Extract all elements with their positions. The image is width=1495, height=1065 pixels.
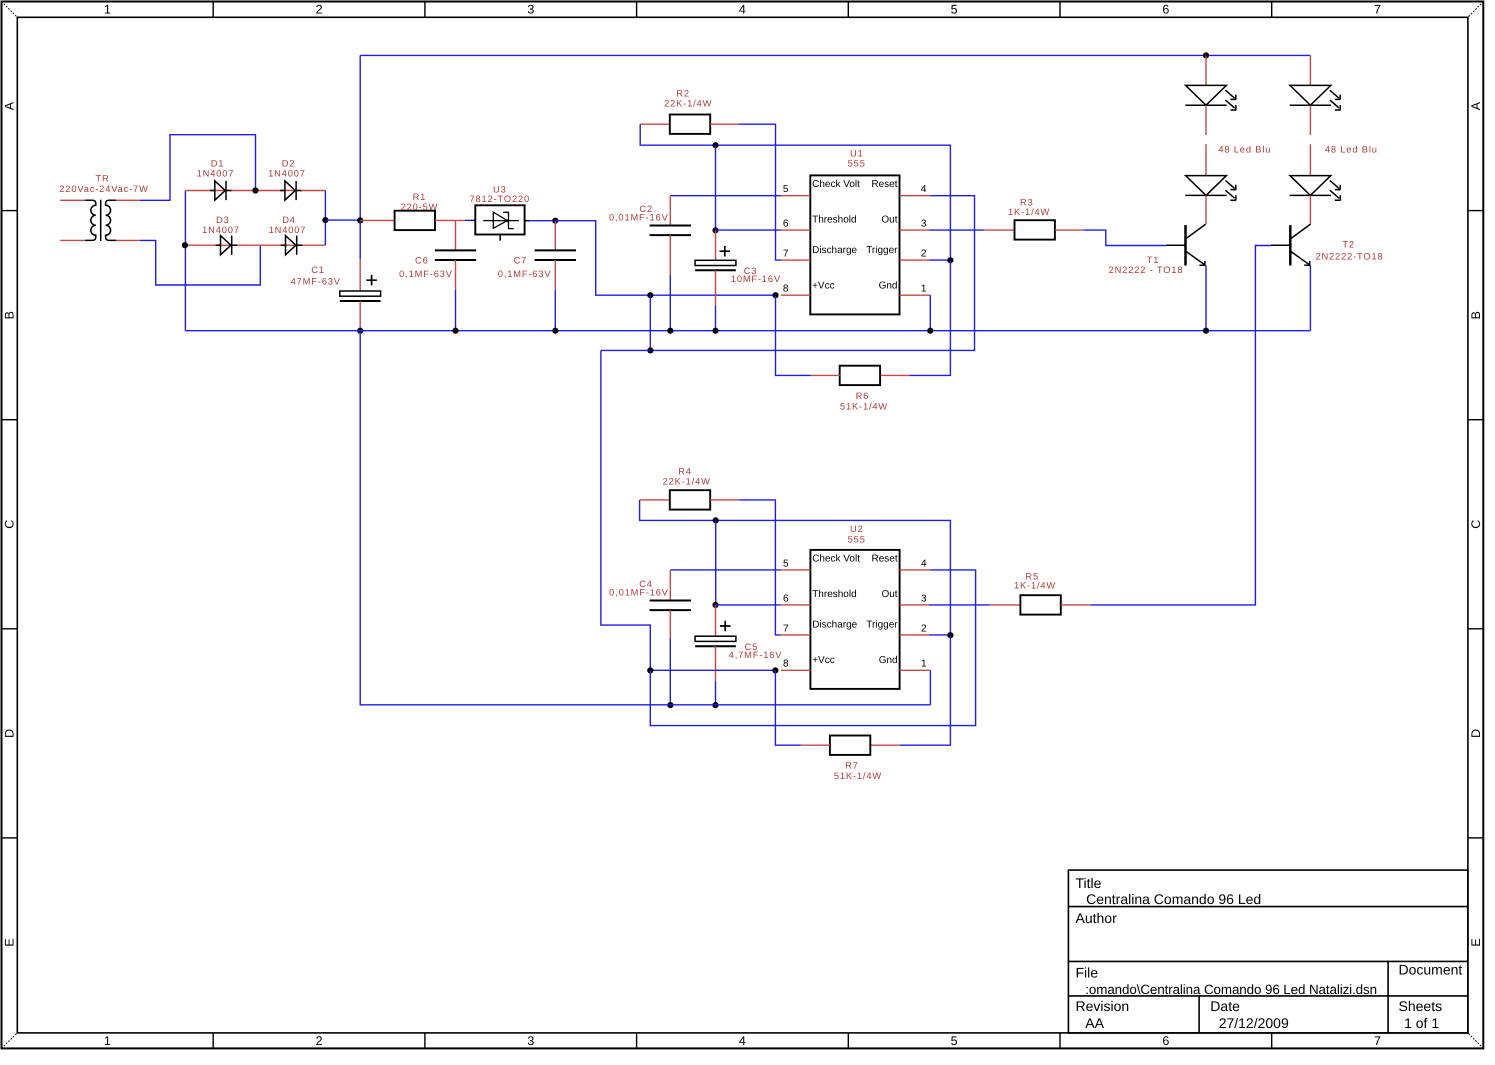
resistor R1 body [395,211,435,230]
junction +24V node [357,217,363,223]
svg-text:6: 6 [1162,3,1169,17]
svg-text:3: 3 [921,593,927,604]
wire U1 pin 5 line from C2 [670,195,781,197]
wire +24V vertical to top rail [359,55,361,220]
svg-text:220-5W: 220-5W [401,202,439,212]
junction C2 to ground rail [667,328,673,334]
wire U1 trigger down to R6 right [909,260,950,375]
svg-text:Discharge: Discharge [812,245,857,256]
wire C5 column vertical [715,520,717,605]
wire C4 upper lead [669,570,671,601]
svg-text:48 Led Blu: 48 Led Blu [1218,145,1271,155]
wire bridge output to +24V node [325,219,360,221]
svg-text:Threshold: Threshold [812,589,856,600]
svg-text:TR: TR [95,174,109,184]
svg-text:51K-1/4W: 51K-1/4W [840,402,888,412]
junction U1 reset link node [647,347,653,353]
svg-text:R1: R1 [413,192,427,202]
svg-text:1N4007: 1N4007 [197,168,235,178]
svg-text:C: C [1469,520,1483,529]
svg-text:6: 6 [783,593,789,604]
junction U1 pin 6 node [712,227,718,233]
transformer TR symbol [85,200,116,241]
capacitor C4 plates [650,601,691,611]
wire R2 right to U1 pin 7 [739,124,781,260]
wire U2 pin 2 to junction [930,634,951,636]
svg-text:T2: T2 [1342,240,1355,250]
wire T2 emitter to ground rail end [1309,266,1311,331]
wire R5 right lead [1061,604,1091,606]
wire LED string 1 top lead [1205,55,1207,85]
junction U2 Vcc row at x650 [647,667,653,673]
wire T1 emitter to ground rail [1205,266,1207,331]
wire U2 trigger down to R7 right [900,635,951,745]
svg-text:4: 4 [921,558,927,569]
polarized capacitor C5 plates and + mark [695,621,736,647]
transistor T2 symbol (NPN) [1271,224,1311,266]
wire U2 Vcc row [650,669,775,671]
wire U1 pin 1 to ground rail [929,295,931,331]
svg-text:B: B [3,311,17,319]
svg-text:Out: Out [881,589,897,600]
capacitor C6 plates [435,250,476,260]
svg-text:6: 6 [783,219,789,230]
wire LED string 1 inter-LED lower segment [1205,144,1207,175]
svg-text:4: 4 [921,184,927,195]
wire U2 ground line from rail [360,331,930,705]
wire C6 lower lead [455,260,457,290]
svg-text:47MF-63V: 47MF-63V [291,276,341,286]
junction T1 emitter at ground rail [1203,328,1209,334]
wire secondary top to bridge top node [140,135,256,201]
wire U1 reset link pin4 to Vcc [650,196,974,351]
wire U1 pin 6 line [716,229,781,231]
svg-text:0,01MF-16V: 0,01MF-16V [609,587,669,597]
junction threshold line at C3 column [712,142,718,148]
junction C6 to ground rail [452,328,458,334]
svg-text:Title: Title [1076,875,1102,891]
junction bridge output node [322,217,328,223]
svg-text:Gnd: Gnd [879,655,898,666]
U2 pin number labels [783,558,927,669]
svg-text:1N4007: 1N4007 [269,225,307,235]
wire U3 output to +12V node [525,220,530,222]
svg-text:1: 1 [104,1034,111,1048]
U2 pin leads [781,570,930,670]
svg-text:Threshold: Threshold [812,215,856,226]
regulator U3 internal zener symbol [483,212,519,229]
polarized capacitor C3 plates and + mark [695,246,736,270]
svg-text:3: 3 [527,1034,534,1048]
wire top +24V rail [360,54,1310,56]
svg-text:22K-1/4W: 22K-1/4W [664,99,712,109]
svg-text:Revision: Revision [1076,998,1130,1014]
LED D5 (string 1 upper) symbol [1185,85,1236,110]
svg-text:Author: Author [1076,910,1118,926]
svg-text:File: File [1076,964,1099,980]
wire bridge top row [185,190,325,192]
junction bridge top node [252,187,258,193]
wire secondary bottom to bridge bottom node [140,240,260,285]
svg-text:3: 3 [527,3,534,17]
wire C1 upper lead [359,220,361,259]
resistor R7 body [830,736,870,755]
wire U2 reset link pin4 to Vcc [650,570,975,726]
svg-text:R3: R3 [1020,198,1034,208]
wire R4 left down to U2 threshold line [640,500,951,635]
wire R4 left lead [640,499,670,501]
svg-text:AA: AA [1085,1015,1104,1031]
svg-text:E: E [1469,938,1483,946]
svg-text:Trigger: Trigger [866,619,898,630]
wire LED string 1 to T1 collector [1205,195,1207,224]
svg-text:Check Volt: Check Volt [812,554,860,565]
diode D4 symbol [281,236,302,255]
svg-text:27/12/2009: 27/12/2009 [1219,1015,1289,1031]
svg-text:Document: Document [1399,962,1463,978]
wire U1 pin 3 out [930,229,985,231]
junction C4 to U2 ground line [667,702,673,708]
wire LED string 2 top lead [1309,55,1311,85]
svg-text:U3: U3 [493,184,507,194]
svg-text:22K-1/4W: 22K-1/4W [663,476,711,486]
svg-text:R6: R6 [856,391,870,401]
junction U2 threshold line at C5 column [713,517,719,523]
wire bridge right vertical [324,191,326,246]
transistor T1 symbol (NPN) [1166,224,1206,266]
wire LED string 2 inter-LED lower segment [1309,144,1311,175]
svg-text:7: 7 [1374,1034,1381,1048]
wire supply branch to U2 Vcc [601,350,650,670]
wire U2 pin 6 line [716,604,781,606]
svg-text:T1: T1 [1147,255,1160,265]
wire C5 lower lead [715,646,717,681]
wire bridge left vertical [184,191,186,331]
wire C5 upper lead [715,605,717,636]
svg-text:Sheets: Sheets [1399,998,1443,1014]
svg-text:D: D [1469,729,1483,738]
LED D7 (string 2 upper) symbol [1290,85,1341,110]
svg-text:C7: C7 [514,256,528,266]
wire R1 to U3 input [435,219,465,221]
svg-text:1N4007: 1N4007 [202,225,240,235]
svg-text:10MF-16V: 10MF-16V [731,274,781,284]
U1 pin leads [781,196,930,296]
wire R2 right lead [710,123,739,125]
svg-text:0,1MF-63V: 0,1MF-63V [399,269,453,279]
wire R7 right lead [870,744,900,746]
svg-text:5: 5 [783,558,789,569]
diode D3 symbol [216,236,237,255]
svg-text::omando\Centralina Comando 96: :omando\Centralina Comando 96 Led Natali… [1085,982,1377,997]
svg-text:1: 1 [921,284,927,295]
junction U1 pin 1 at ground rail [927,328,933,334]
svg-text:Discharge: Discharge [812,619,857,630]
wire R6 right lead [880,374,910,376]
capacitor C2 plates [650,226,691,236]
wire R4 right lead [710,499,739,501]
555 timer U1 body [810,175,899,314]
svg-text:8: 8 [783,659,789,670]
LED D6 (string 1 lower) symbol [1185,176,1236,201]
junction bridge bottom-left node [182,242,188,248]
svg-text:2N2222-TO18: 2N2222-TO18 [1315,252,1383,262]
svg-text:Date: Date [1210,998,1240,1014]
wire C3 column vertical [715,145,717,230]
wire R6 left lead [811,374,840,376]
svg-text:E: E [3,938,17,946]
svg-text:6: 6 [1162,1034,1169,1048]
svg-text:0,01MF-16V: 0,01MF-16V [609,212,669,222]
wire C7 upper lead [554,221,556,251]
svg-text:220Vac-24Vac-7W: 220Vac-24Vac-7W [59,184,148,194]
svg-text:4,7MF-16V: 4,7MF-16V [729,650,783,660]
LED D8 (string 2 lower) symbol [1290,176,1341,201]
svg-text:7: 7 [783,249,789,260]
svg-text:+Vcc: +Vcc [812,280,835,291]
svg-text:1: 1 [104,3,111,17]
wire R4 right to U2 pin 7 [739,500,781,635]
wire reset-link left segment [601,349,651,351]
U1 internal pin names [812,179,898,291]
resistor R3 body [1015,220,1055,239]
wire C7 lower lead [554,260,556,290]
junction +12V node at C7 [552,218,558,224]
junction U1 pin 2 node [947,257,953,263]
resistor R4 body [670,490,710,509]
svg-text:D3: D3 [216,215,230,225]
junction U2 pin 2 node [947,632,953,638]
svg-text:Trigger: Trigger [866,245,898,256]
polarized capacitor C1 plates and + mark [340,275,381,301]
wire R2 left lead [640,123,670,125]
svg-text:Gnd: Gnd [879,280,898,291]
svg-text:D4: D4 [282,215,296,225]
junction U1 Vcc row at pin 8 [772,292,778,298]
svg-text:U2: U2 [850,524,864,534]
svg-text:U1: U1 [850,148,864,158]
svg-text:4: 4 [739,3,746,17]
wire C3 lower lead [715,270,717,306]
svg-text:+Vcc: +Vcc [812,655,835,666]
svg-text:A: A [1469,101,1483,110]
svg-text:2: 2 [316,3,323,17]
wire +12V to U1 pin 8 row [555,221,775,296]
svg-text:7812-TO220: 7812-TO220 [470,194,531,204]
svg-text:Reset: Reset [871,554,897,565]
svg-text:5: 5 [783,184,789,195]
svg-text:D2: D2 [282,159,296,169]
svg-text:7: 7 [783,623,789,634]
wire R7 left up to U2 Vcc junction [775,670,801,745]
svg-text:D1: D1 [211,159,225,169]
wire U1 pin 2 to junction [930,259,951,261]
svg-text:4: 4 [739,1034,746,1048]
svg-text:5: 5 [951,1034,958,1048]
svg-text:R2: R2 [676,89,690,99]
svg-text:0,1MF-63V: 0,1MF-63V [498,269,552,279]
wire R6 left up to U1 Vcc junction [776,295,812,375]
svg-text:2N2222 - TO18: 2N2222 - TO18 [1109,265,1184,275]
wire U1 Vcc junction down to reset link [649,295,651,350]
svg-text:51K-1/4W: 51K-1/4W [834,771,882,781]
wire LED string 1 inter-LED upper segment [1205,105,1207,135]
junction U2 Vcc row at pin 8 [772,667,778,673]
wire R3 right lead [1055,229,1084,231]
svg-text:3: 3 [921,219,927,230]
svg-text:D: D [3,729,17,738]
wire C4 lower lead [669,610,671,638]
junction U2 pin 6 node [712,602,718,608]
wire U2 pin 3 out [930,604,991,606]
svg-text:R7: R7 [845,760,859,770]
svg-text:R4: R4 [678,467,692,477]
svg-text:Centralina Comando 96 Led: Centralina Comando 96 Led [1086,891,1261,907]
wire LED string 2 inter-LED upper segment [1309,105,1311,135]
junction C1 to ground rail [357,328,363,334]
svg-text:555: 555 [848,534,866,544]
wire +24V node to R1 [360,219,394,221]
wire R5 to T2 base [1091,246,1272,605]
svg-text:Reset: Reset [871,179,897,190]
wire R7 left lead [801,744,830,746]
regulator U3 body [475,205,524,234]
svg-text:1N4007: 1N4007 [268,168,306,178]
wire main ground rail [185,330,1310,332]
junction C3 to ground rail [712,328,718,334]
wire U2 pin 5 line from C4 [670,569,781,571]
svg-text:1 of 1: 1 of 1 [1404,1015,1439,1031]
svg-text:7: 7 [1374,3,1381,17]
svg-text:5: 5 [951,3,958,17]
junction top rail at LED string 1 [1203,52,1209,58]
svg-text:48 Led Blu: 48 Led Blu [1325,145,1378,155]
svg-text:C6: C6 [415,256,429,266]
wire U2 pin 1 down to ground line [929,670,931,705]
wire C6 upper lead [455,220,457,250]
wire LED string 2 to T2 collector [1309,195,1311,224]
junction C5 to U2 ground line [712,702,718,708]
svg-text:555: 555 [848,158,866,168]
junction C7 to ground rail [552,328,558,334]
wire R5 left lead [990,604,1020,606]
svg-text:2: 2 [921,249,927,260]
wire R3 left lead [984,229,1014,231]
svg-text:8: 8 [783,284,789,295]
555 timer U2 body [810,550,899,689]
svg-text:1K-1/4W: 1K-1/4W [1008,207,1050,217]
wire C1 lower lead [359,301,361,331]
capacitor C7 plates [535,250,576,260]
wire R2 left down to threshold line [640,124,950,260]
U2 internal pin names [812,554,898,666]
resistor R2 body [670,115,710,134]
svg-text:Check Volt: Check Volt [812,179,860,190]
wire R3 to T1 base [1084,230,1167,245]
resistor R6 body [840,366,880,385]
wire bridge bottom row [185,244,325,246]
diode D2 symbol [280,181,301,200]
wire C2 lower lead [669,235,671,275]
wire C2 upper lead [669,196,671,226]
svg-text:1: 1 [921,659,927,670]
svg-text:C: C [3,520,17,529]
svg-text:Out: Out [881,215,897,226]
wire C3 upper lead [715,230,717,260]
diode D1 symbol [210,181,231,200]
svg-text:A: A [3,101,17,110]
svg-text:C1: C1 [311,265,325,275]
svg-text:2: 2 [921,623,927,634]
resistor R5 body [1020,595,1060,614]
junction U1 Vcc row at x650 [647,292,653,298]
svg-text:1K-1/4W: 1K-1/4W [1014,581,1056,591]
U1 pin number labels [783,184,927,295]
svg-text:2: 2 [316,1034,323,1048]
regulator U3 ground tab stub [499,235,501,241]
svg-text:B: B [1469,311,1483,319]
transformer TR primary stub leads [60,200,140,240]
